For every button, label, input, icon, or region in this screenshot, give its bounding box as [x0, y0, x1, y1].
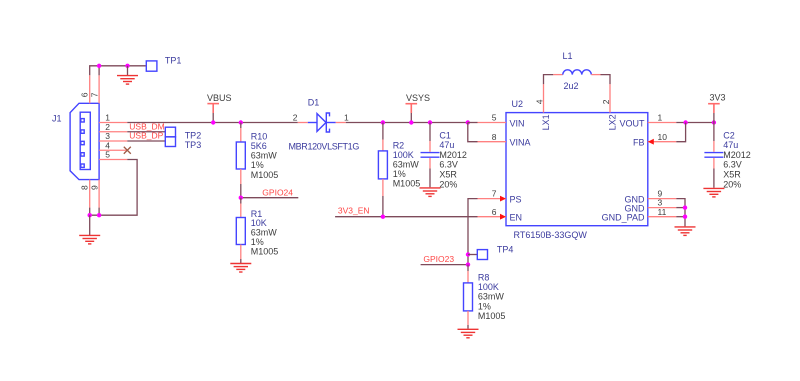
U2 pin VOUT (1) — [619, 113, 676, 129]
U2 pin LX2 (2) — [601, 84, 618, 130]
junction pin7/TP1 — [97, 64, 101, 68]
test point TP1 — [146, 61, 157, 71]
svg-text:4: 4 — [534, 99, 544, 104]
svg-text:47u: 47u — [439, 140, 454, 150]
R10 labels — [251, 131, 279, 179]
svg-text:M1005: M1005 — [251, 246, 279, 256]
wire TP4 stub — [468, 254, 477, 256]
svg-text:M1005: M1005 — [478, 311, 506, 321]
svg-text:GPIO23: GPIO23 — [423, 254, 454, 264]
U2 pin GND (3) — [625, 198, 677, 214]
svg-text:R2: R2 — [393, 140, 405, 150]
resistor R8 — [464, 265, 473, 329]
junction GPIO24 — [239, 196, 243, 200]
svg-text:PS: PS — [510, 194, 522, 204]
svg-text:7: 7 — [89, 92, 99, 97]
svg-text:C2: C2 — [723, 130, 735, 140]
svg-text:J1: J1 — [52, 113, 62, 123]
svg-text:VINA: VINA — [510, 138, 531, 148]
svg-text:M1005: M1005 — [251, 170, 279, 180]
junction VIN branch — [466, 120, 470, 124]
svg-text:X5R: X5R — [723, 170, 741, 180]
svg-text:8: 8 — [492, 132, 497, 142]
J1 pin 2 — [99, 131, 127, 133]
svg-text:VSYS: VSYS — [406, 93, 430, 103]
svg-text:M2012: M2012 — [723, 150, 751, 160]
junction TP4 — [466, 252, 470, 256]
svg-text:20%: 20% — [723, 179, 741, 189]
wire 3V3_EN — [335, 216, 477, 218]
svg-text:EN: EN — [510, 213, 523, 223]
svg-text:63mW: 63mW — [478, 292, 505, 302]
svg-text:VBUS: VBUS — [207, 93, 232, 103]
U2 pin FB (10) — [633, 132, 676, 148]
J1 pin 6 — [89, 75, 91, 103]
wire FB net — [676, 123, 685, 142]
svg-text:1%: 1% — [393, 169, 406, 179]
ground (R1) — [230, 264, 251, 273]
svg-text:2: 2 — [601, 99, 611, 104]
svg-text:VOUT: VOUT — [619, 118, 645, 128]
svg-text:R8: R8 — [478, 273, 490, 283]
test point TP2 — [165, 127, 175, 137]
test point TP4 — [477, 250, 487, 260]
ground (R8) — [458, 329, 479, 338]
C1 labels — [439, 130, 467, 189]
D1 pin numbers — [293, 113, 349, 123]
wire VBUS rail — [127, 122, 297, 124]
R8 labels — [478, 273, 506, 321]
wire VSYS rail — [346, 122, 468, 124]
svg-text:7: 7 — [492, 189, 497, 199]
svg-text:63mW: 63mW — [393, 159, 420, 169]
U2 pin GND_PAD (11) — [602, 207, 677, 223]
test point TP3 — [165, 137, 175, 147]
U2 pin VIN (5) — [478, 113, 525, 129]
svg-text:L1: L1 — [563, 51, 573, 61]
junction 3V3/C2 — [712, 120, 716, 124]
J1 pin 4 — [99, 149, 127, 151]
C2 labels — [723, 130, 751, 189]
no-connect X on pin 4 — [124, 147, 131, 154]
svg-text:9: 9 — [89, 185, 99, 190]
IC U2 box — [506, 113, 648, 226]
svg-text:5: 5 — [105, 150, 110, 160]
inductor L1 — [544, 70, 611, 84]
wire GPIO24 — [241, 197, 298, 199]
junction FB riser — [683, 120, 687, 124]
connector J1 body — [70, 103, 99, 179]
J1 pin numbers 8,9 — [80, 185, 100, 190]
junction VBUS — [211, 120, 215, 124]
svg-text:5: 5 — [492, 113, 497, 123]
wire pin8 riser — [89, 208, 91, 216]
U2 pin PS (7) — [478, 189, 522, 205]
wire pin7 riser — [98, 66, 100, 76]
svg-text:3V3_EN: 3V3_EN — [338, 205, 370, 215]
resistor R1 — [236, 198, 245, 263]
power symbol VSYS — [406, 104, 418, 123]
junction R10 top — [239, 120, 243, 124]
wire TP1 net horizontal — [90, 66, 146, 76]
ground (J1 shield) — [79, 235, 100, 244]
junction R2 top — [381, 120, 385, 124]
svg-text:FB: FB — [633, 138, 645, 148]
svg-text:GPIO24: GPIO24 — [262, 187, 293, 197]
junction GND3 — [683, 205, 687, 209]
svg-text:LX2: LX2 — [607, 114, 617, 130]
ground (U2 GND) — [675, 227, 696, 236]
ground (TP1 net) — [117, 76, 138, 85]
svg-text:MBR120VLSFT1G: MBR120VLSFT1G — [289, 142, 360, 152]
capacitor C2 — [704, 123, 723, 188]
svg-text:GND_PAD: GND_PAD — [602, 213, 645, 223]
J1 pin numbers 6,7 — [80, 92, 100, 97]
wire pin9 riser — [98, 208, 100, 216]
svg-text:3V3: 3V3 — [710, 93, 726, 103]
wire VINA branch — [468, 123, 478, 142]
svg-text:M2012: M2012 — [439, 150, 467, 160]
resistor R10 — [236, 123, 245, 198]
J1 pin 8 — [89, 180, 91, 208]
svg-text:1%: 1% — [478, 301, 491, 311]
capacitor C1 — [421, 123, 440, 188]
svg-text:D1: D1 — [308, 98, 320, 108]
J1 pin 9 — [98, 180, 100, 208]
power symbol VBUS — [207, 104, 219, 123]
junction GPIO23 — [466, 262, 470, 266]
junction ground/TP1 — [125, 64, 129, 68]
svg-text:TP4: TP4 — [497, 245, 514, 255]
svg-text:C1: C1 — [439, 130, 451, 140]
junction GND_PAD — [683, 215, 687, 219]
svg-text:TP1: TP1 — [165, 56, 182, 66]
ground (C2) — [703, 188, 724, 197]
svg-text:11: 11 — [658, 207, 667, 217]
wire GPIO23 — [421, 264, 468, 266]
wire PS net vertical — [468, 199, 478, 265]
svg-text:X5R: X5R — [439, 170, 457, 180]
svg-text:M1005: M1005 — [393, 178, 421, 188]
junction R2 bottom — [381, 215, 385, 219]
U2 pin GND (9) — [625, 189, 677, 205]
svg-text:USB_DP: USB_DP — [129, 131, 163, 141]
svg-text:1%: 1% — [251, 160, 264, 170]
J1 pin 3 — [99, 140, 127, 142]
svg-text:5K6: 5K6 — [251, 141, 267, 151]
svg-text:10: 10 — [658, 132, 668, 142]
svg-text:8: 8 — [80, 185, 90, 190]
U2 pin EN (6) — [478, 207, 523, 223]
svg-text:VIN: VIN — [510, 118, 525, 128]
wire ground stub TP1 — [127, 66, 129, 76]
J1 pin numbers 1-5 — [105, 113, 110, 160]
U2 pin LX1 (4) — [534, 84, 551, 130]
junction pin8/bottom — [88, 213, 92, 217]
svg-text:63mW: 63mW — [251, 151, 278, 161]
wire GND net — [676, 199, 685, 227]
svg-text:2: 2 — [293, 113, 298, 123]
junction C1 top — [428, 120, 432, 124]
U2 pin VINA (8) — [478, 132, 531, 148]
power symbol 3V3 — [708, 104, 720, 123]
wire VOUT net — [676, 122, 714, 124]
wire VIN stub link — [468, 122, 478, 124]
J1 pin 7 — [98, 75, 100, 103]
svg-text:TP3: TP3 — [185, 140, 202, 150]
svg-text:6: 6 — [80, 92, 90, 97]
wire ground stub J1 — [89, 215, 91, 235]
svg-text:6.3V: 6.3V — [723, 160, 742, 170]
svg-text:6: 6 — [492, 207, 497, 217]
diode D1 — [298, 113, 346, 132]
resistor R2 — [378, 123, 387, 217]
wire pin5 loop — [90, 160, 137, 216]
svg-text:RT6150B-33GQW: RT6150B-33GQW — [514, 230, 588, 240]
svg-text:LX1: LX1 — [541, 114, 551, 130]
svg-text:100K: 100K — [393, 150, 414, 160]
svg-text:100K: 100K — [478, 282, 499, 292]
svg-text:R10: R10 — [251, 131, 268, 141]
svg-text:1: 1 — [658, 113, 663, 123]
J1 pin 5 — [99, 159, 127, 161]
svg-text:1: 1 — [344, 113, 349, 123]
svg-text:20%: 20% — [439, 179, 457, 189]
svg-text:47u: 47u — [723, 140, 738, 150]
wire USB_DP — [127, 140, 165, 142]
junction VSYS — [409, 120, 413, 124]
svg-text:2u2: 2u2 — [564, 81, 579, 91]
R2 labels — [393, 140, 421, 188]
junction pin9/bottom — [97, 213, 101, 217]
svg-text:U2: U2 — [512, 99, 524, 109]
svg-text:6.3V: 6.3V — [439, 160, 458, 170]
ground (C1) — [420, 188, 441, 197]
R1 labels — [251, 209, 279, 257]
J1 pin 1 — [99, 122, 127, 124]
wire USB_DM — [127, 131, 165, 133]
